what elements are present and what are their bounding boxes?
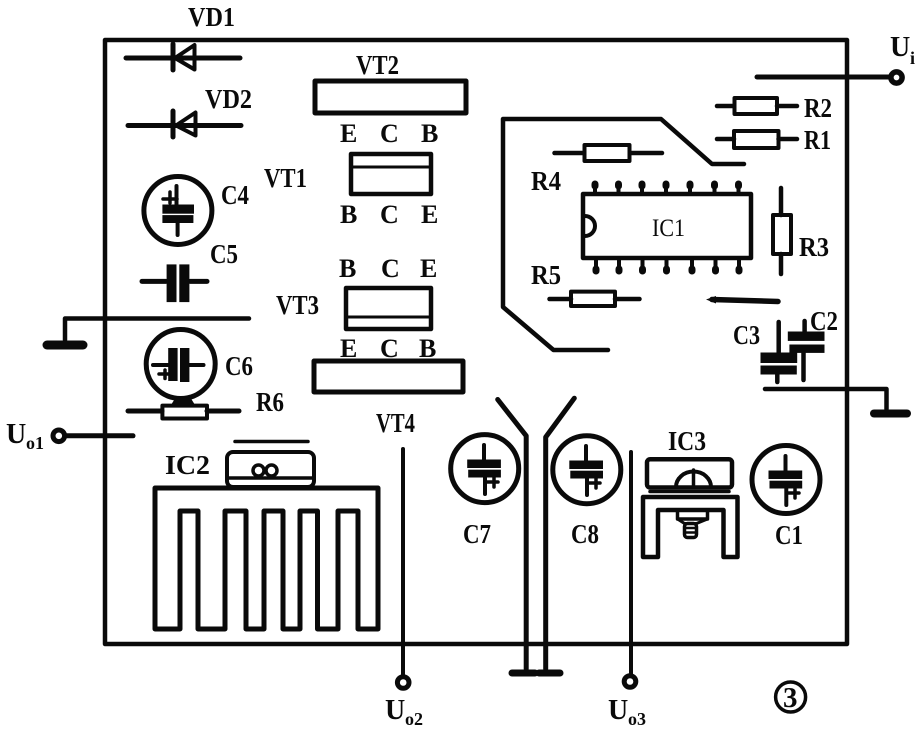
wire to ground (right)	[765, 389, 887, 409]
svg-text:U: U	[608, 695, 628, 726]
transistor VT2	[315, 81, 466, 113]
resistor R2	[717, 98, 797, 114]
capacitor C5	[142, 264, 207, 302]
resistor R6	[128, 406, 239, 419]
svg-text:i: i	[910, 48, 915, 68]
leg foot (right)	[539, 670, 560, 677]
IC1 top pins	[595, 184, 739, 194]
capacitor C2	[788, 321, 825, 380]
svg-text:E: E	[340, 119, 357, 148]
resistor R5	[550, 292, 640, 306]
svg-text:B: B	[340, 200, 357, 229]
svg-text:3: 3	[783, 682, 798, 714]
terminal Uo1	[53, 430, 65, 442]
VT4 emitter leg wire (left)	[498, 400, 527, 670]
svg-text:C5: C5	[210, 239, 238, 269]
svg-text:R3: R3	[799, 232, 829, 262]
wire to Uo3	[629, 452, 633, 674]
svg-text:C: C	[381, 254, 400, 283]
C6 mounting stub	[171, 399, 195, 406]
diode VD1	[126, 44, 240, 70]
VT3 pin labels B C E	[339, 254, 437, 283]
IC2 package top line	[235, 440, 308, 444]
wire from Uo1	[66, 433, 133, 438]
svg-text:C3: C3	[733, 320, 760, 350]
svg-text:C6: C6	[225, 351, 253, 381]
svg-text:o2: o2	[405, 709, 423, 729]
svg-text:U: U	[890, 32, 910, 63]
svg-text:IC1: IC1	[652, 215, 685, 242]
svg-text:IC2: IC2	[165, 450, 210, 480]
transistor VT1	[351, 154, 431, 194]
svg-text:VT2: VT2	[356, 50, 399, 80]
svg-text:C8: C8	[571, 519, 599, 549]
capacitor C4	[144, 177, 212, 245]
terminal Uo3	[624, 676, 636, 688]
VT1 pin labels B C E	[340, 200, 438, 229]
svg-text:C1: C1	[775, 520, 803, 550]
svg-text:E: E	[420, 254, 437, 283]
VT2 pin labels E C B	[340, 119, 438, 148]
svg-text:R2: R2	[804, 93, 832, 123]
svg-text:VT1: VT1	[264, 163, 307, 193]
capacitor C3	[761, 322, 798, 382]
IC1 body	[583, 194, 751, 258]
ground (left)	[47, 341, 83, 350]
wire to Uo2	[401, 449, 405, 675]
signal trace around IC1	[503, 119, 744, 350]
board outline	[105, 40, 847, 644]
svg-text:R4: R4	[531, 166, 561, 196]
wire to ground (left)	[65, 319, 249, 341]
IC2 heatsink	[155, 488, 378, 629]
diode VD2	[128, 111, 241, 137]
svg-text:R1: R1	[804, 125, 831, 155]
IC1 bottom pins	[596, 258, 739, 271]
leg foot (left)	[512, 670, 535, 677]
capacitor C7	[451, 435, 519, 503]
svg-text:R6: R6	[256, 387, 284, 417]
svg-text:B: B	[421, 119, 438, 148]
svg-text:C7: C7	[463, 519, 491, 549]
svg-text:C4: C4	[221, 180, 249, 210]
svg-text:R5: R5	[531, 260, 561, 290]
resistor R3	[773, 188, 791, 274]
ground (right)	[874, 410, 907, 418]
svg-text:E: E	[421, 200, 438, 229]
svg-text:U: U	[385, 695, 405, 726]
svg-text:IC3: IC3	[668, 426, 706, 456]
figure number 3	[776, 682, 806, 714]
resistor R4	[555, 145, 663, 161]
transistor VT4	[314, 361, 463, 392]
IC3 mounting bracket	[643, 497, 738, 557]
svg-text:o3: o3	[628, 709, 646, 729]
terminal Uo2	[397, 677, 409, 689]
IC3 body	[647, 459, 732, 491]
capacitor C1	[752, 446, 820, 514]
svg-text:C: C	[380, 200, 399, 229]
svg-text:VT4: VT4	[376, 408, 415, 438]
IC2 transistor package	[227, 452, 314, 487]
capacitor C6	[146, 330, 215, 399]
svg-text:o1: o1	[26, 433, 44, 453]
arrow trace	[706, 296, 778, 304]
IC3 screw	[678, 510, 708, 538]
svg-text:B: B	[339, 254, 356, 283]
svg-text:U: U	[6, 419, 26, 450]
terminal Ui	[891, 72, 902, 83]
svg-text:VD2: VD2	[205, 84, 252, 114]
svg-text:VD1: VD1	[188, 2, 235, 32]
VT3 pin labels E C B	[340, 334, 436, 363]
capacitor C8	[553, 436, 621, 504]
resistor R1	[717, 131, 797, 148]
VT4 collector leg wire (right)	[546, 398, 575, 669]
input wire Ui	[757, 75, 889, 80]
svg-text:VT3: VT3	[276, 290, 319, 320]
transistor VT3	[346, 288, 431, 329]
svg-text:C: C	[380, 119, 399, 148]
